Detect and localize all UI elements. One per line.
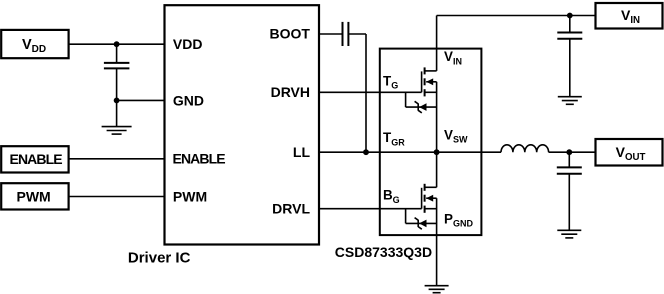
wire DRVH to TG xyxy=(319,91,422,93)
wire ENABLE xyxy=(69,158,165,160)
wire VIN rail xyxy=(437,15,596,17)
capacitor C1 xyxy=(104,44,129,100)
svg-text:GND: GND xyxy=(173,92,204,108)
box VOUT xyxy=(596,139,663,166)
diode D1 gate zener xyxy=(406,92,437,113)
box ENABLE input xyxy=(1,146,68,172)
wire BOOT xyxy=(319,33,343,35)
wire PWM xyxy=(69,196,165,198)
wire VDD xyxy=(69,43,165,45)
svg-text:Driver IC: Driver IC xyxy=(128,249,191,266)
svg-text:BOOT: BOOT xyxy=(270,25,311,41)
node VDD junction xyxy=(114,41,120,47)
wire LL to TGR / VSW xyxy=(319,151,501,153)
svg-text:ENABLE: ENABLE xyxy=(173,151,226,167)
svg-text:PWM: PWM xyxy=(173,189,207,205)
ground (output cap) xyxy=(557,230,581,238)
wire GND xyxy=(117,99,165,101)
transistor Q2 low-side xyxy=(422,152,437,286)
svg-text:PWM: PWM xyxy=(17,188,51,204)
node GND junction xyxy=(114,98,120,104)
ground (power stage) xyxy=(425,286,449,293)
wire VSW to VOUT xyxy=(549,151,596,153)
node VSW junction xyxy=(434,149,440,155)
svg-text:DRVH: DRVH xyxy=(271,84,310,100)
svg-text:LL: LL xyxy=(293,144,311,160)
CSD87333Q3D block U2 xyxy=(380,49,482,236)
svg-text:VDD: VDD xyxy=(173,36,203,52)
box PWM input xyxy=(1,183,68,209)
capacitor C3 input xyxy=(557,16,582,97)
node VOUT junction xyxy=(566,149,572,155)
inductor L1 xyxy=(501,145,549,152)
capacitor C2 boot xyxy=(343,22,349,46)
ground (input cap) xyxy=(558,97,582,105)
box VDD input xyxy=(1,30,68,58)
box VIN xyxy=(596,3,663,29)
diode D2 gate zener xyxy=(406,209,437,230)
Driver IC block U1 xyxy=(165,5,320,244)
transistor Q1 high-side xyxy=(422,16,437,153)
wire DRVL to BG xyxy=(319,208,422,210)
svg-text:ENABLE: ENABLE xyxy=(10,151,63,167)
node boot-LL junction xyxy=(363,149,369,155)
capacitor C4 output xyxy=(557,152,582,230)
ground (VDD decoupling) xyxy=(102,100,132,134)
svg-text:DRVL: DRVL xyxy=(272,201,310,217)
node VIN junction xyxy=(567,13,573,19)
svg-text:CSD87333Q3D: CSD87333Q3D xyxy=(335,244,432,260)
wire boot to LL xyxy=(348,34,366,152)
